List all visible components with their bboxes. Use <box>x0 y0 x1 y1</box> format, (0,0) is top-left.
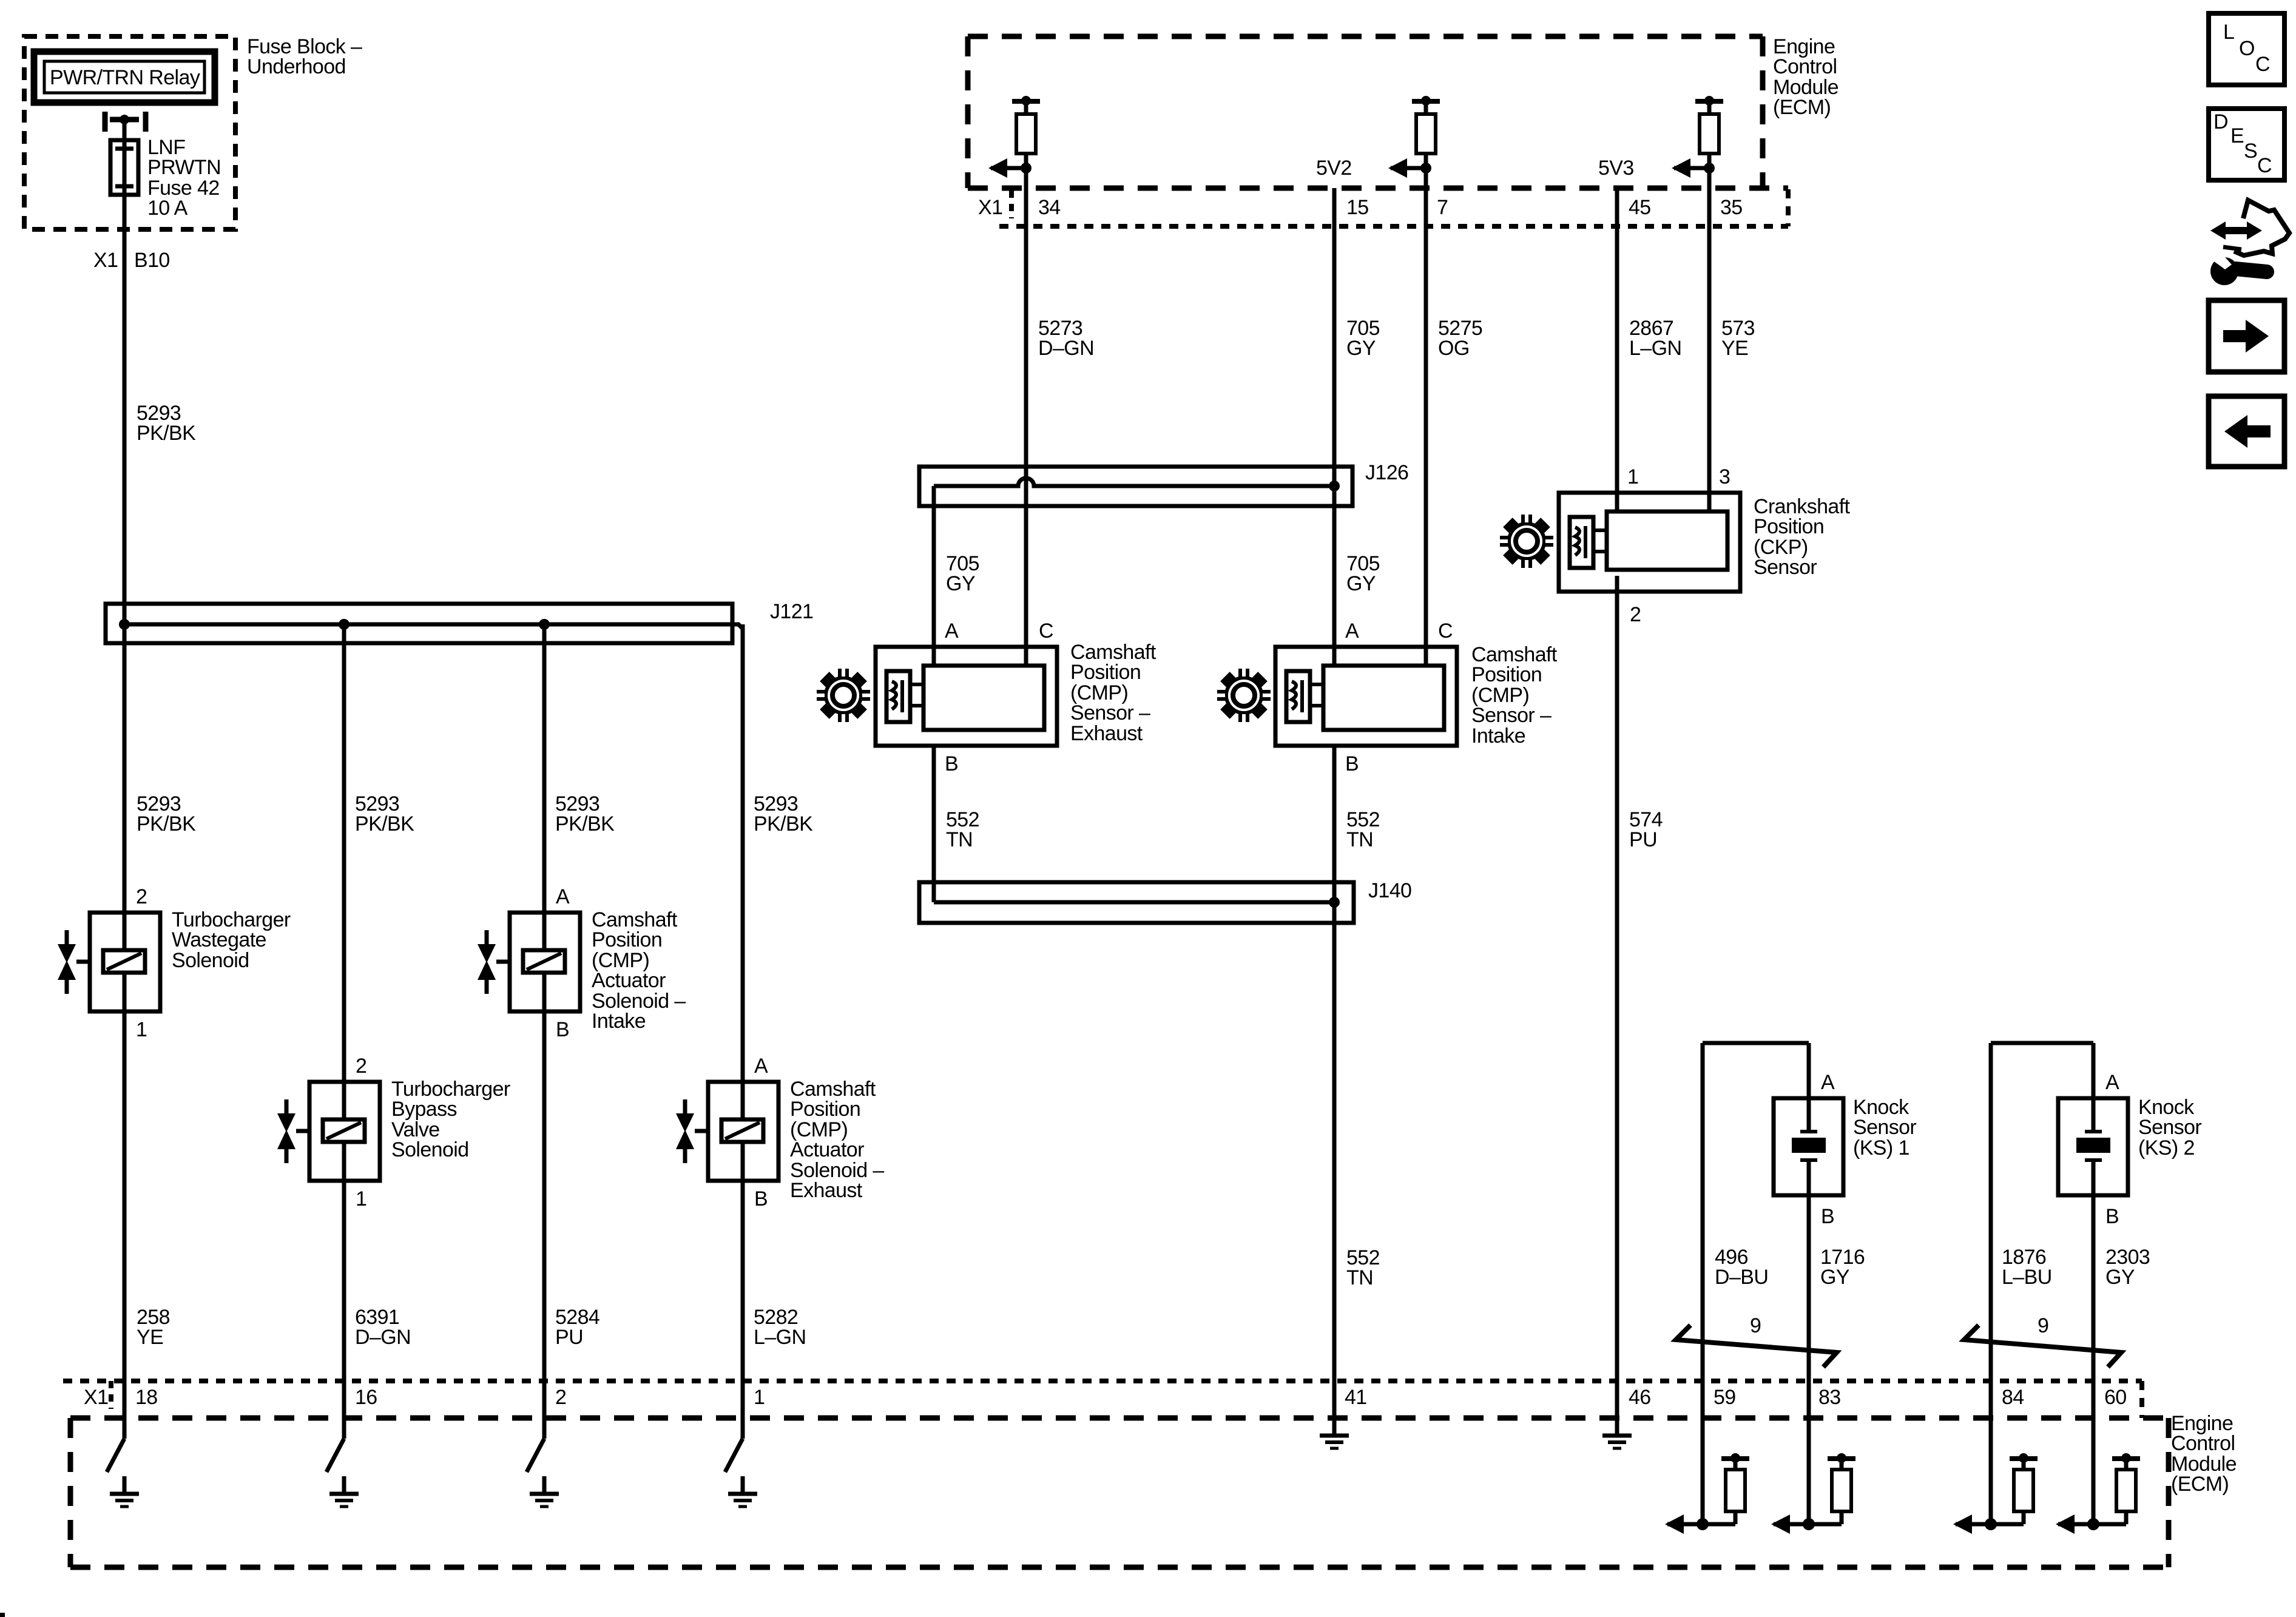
svg-text:GY: GY <box>1346 572 1376 595</box>
svg-text:1: 1 <box>754 1386 765 1409</box>
svg-text:TN: TN <box>1346 828 1373 851</box>
sensor body <box>923 666 1044 730</box>
ground (ECM internal) <box>1332 1418 1337 1436</box>
svg-text:D–BU: D–BU <box>1715 1266 1768 1289</box>
svg-text:1: 1 <box>136 1018 147 1041</box>
ECM top connector dotted strip <box>999 189 1788 226</box>
svg-text:Solenoid: Solenoid <box>391 1138 469 1161</box>
solenoid coil <box>721 1119 763 1142</box>
ground <box>741 1476 745 1494</box>
wire 5293 PK/BK: J121 to bypass solenoid <box>342 624 346 1082</box>
svg-text:Intake: Intake <box>592 1010 646 1033</box>
svg-text:83: 83 <box>1818 1386 1841 1409</box>
icon: check-info arrow with wrench <box>2205 200 2289 285</box>
sensor coil connector <box>886 671 910 722</box>
svg-text:Actuator: Actuator <box>592 969 666 992</box>
svg-text:16: 16 <box>355 1386 377 1409</box>
svg-text:X1: X1 <box>93 249 118 272</box>
ground <box>342 1476 346 1494</box>
svg-text:PK/BK: PK/BK <box>137 422 196 445</box>
ECM top dashed box <box>968 36 1788 188</box>
solenoid coil <box>323 1119 365 1142</box>
svg-text:5V2: 5V2 <box>1316 157 1352 180</box>
svg-text:Position: Position <box>592 928 662 951</box>
svg-text:(ECM): (ECM) <box>1773 96 1831 119</box>
svg-text:YE: YE <box>137 1326 163 1349</box>
solenoid box <box>510 913 580 1011</box>
svg-text:X1: X1 <box>84 1386 108 1409</box>
svg-text:9: 9 <box>1750 1314 1761 1337</box>
svg-text:GY: GY <box>946 572 975 595</box>
svg-text:PK/BK: PK/BK <box>137 812 196 836</box>
svg-text:1: 1 <box>1627 465 1638 488</box>
splice J121 <box>106 604 743 643</box>
svg-text:(ECM): (ECM) <box>2171 1473 2229 1496</box>
wire 5282 L-GN: CMP actuator exhaust to ECM 1 <box>741 1181 745 1439</box>
svg-text:B10: B10 <box>134 249 170 272</box>
svg-text:E: E <box>2230 124 2244 147</box>
svg-text:5V3: 5V3 <box>1598 157 1634 180</box>
svg-text:GY: GY <box>1820 1266 1849 1289</box>
svg-text:PRWTN: PRWTN <box>147 156 221 179</box>
valve symbol <box>65 930 69 945</box>
svg-text:L–BU: L–BU <box>2002 1266 2052 1289</box>
svg-text:Sensor –: Sensor – <box>1471 704 1551 727</box>
wire through solenoid <box>542 913 547 950</box>
sensor body <box>1607 511 1727 570</box>
svg-text:Actuator: Actuator <box>790 1138 864 1161</box>
wire 6391 D-GN: bypass solenoid to ECM 16 <box>342 1181 346 1439</box>
wire: fuse to J121 (5293 PK/BK) <box>123 195 127 624</box>
svg-text:9: 9 <box>2038 1314 2048 1337</box>
fuse F42 LNF PRWTN Fuse 42 10A <box>110 140 138 195</box>
wire 705 GY: ECM 15 to J126 <box>1332 188 1337 486</box>
svg-text:59: 59 <box>1714 1386 1736 1409</box>
svg-text:C: C <box>2257 154 2272 177</box>
wire 5293 PK/BK: J121 to CMP actuator solenoid exhaust <box>741 624 745 1082</box>
svg-text:41: 41 <box>1345 1386 1367 1409</box>
ECM internal pull-up resistor and arrow <box>2112 1456 2140 1461</box>
svg-text:2: 2 <box>1630 603 1641 626</box>
svg-text:PU: PU <box>1629 828 1657 851</box>
svg-text:TN: TN <box>946 828 973 851</box>
svg-text:Position: Position <box>1070 661 1141 684</box>
svg-text:J126: J126 <box>1365 461 1408 484</box>
twisted pair symbol KS1 <box>1676 1325 1837 1367</box>
wire 5273 D-GN: ECM 34 to CMP exhaust C <box>1024 168 1028 666</box>
svg-text:D–GN: D–GN <box>355 1326 411 1349</box>
svg-text:Sensor: Sensor <box>2138 1116 2201 1139</box>
page corner mark <box>0 1613 5 1617</box>
relay PWR/TRN Relay <box>34 52 215 103</box>
svg-text:35: 35 <box>1720 196 1743 219</box>
svg-text:84: 84 <box>2002 1386 2024 1409</box>
wire 5284 PU: CMP actuator intake to ECM 2 <box>542 1011 547 1439</box>
svg-text:X1: X1 <box>978 196 1002 219</box>
wire 5275 OG: ECM 7 to CMP intake C <box>1424 168 1428 666</box>
ECM pull-up resistor at pin 35 <box>1695 99 1723 104</box>
svg-text:O: O <box>2239 37 2255 60</box>
ground <box>123 1476 127 1494</box>
twisted pair symbol KS2 <box>1964 1325 2121 1367</box>
sensor coil connector <box>1570 517 1593 568</box>
svg-text:C: C <box>1438 619 1453 643</box>
icon: DESC box <box>2209 109 2284 180</box>
sensor outer box <box>1275 647 1457 746</box>
solenoid box <box>309 1082 380 1181</box>
wire 5293 PK/BK: J121 to wastegate solenoid <box>123 624 127 913</box>
ECM internal switch to ground <box>107 1418 124 1472</box>
solenoid coil <box>103 950 145 973</box>
svg-text:PWR/TRN Relay: PWR/TRN Relay <box>50 66 200 89</box>
sensor coil connector <box>1286 671 1310 722</box>
wire 574 PU: CKP 2 to ECM 46 <box>1615 576 1619 1436</box>
svg-text:Exhaust: Exhaust <box>790 1179 863 1202</box>
svg-text:B: B <box>945 752 958 775</box>
ECM pull-up resistor at pin 34 <box>1012 99 1040 104</box>
sensor outer box <box>876 647 1057 746</box>
svg-text:B: B <box>2105 1205 2119 1228</box>
wire 2867 L-GN: ECM 45 to CKP 1 <box>1615 188 1619 511</box>
svg-text:GY: GY <box>1346 337 1376 360</box>
svg-text:46: 46 <box>1629 1386 1651 1409</box>
svg-text:B: B <box>1345 752 1359 775</box>
svg-text:GY: GY <box>2105 1266 2135 1289</box>
icon: back arrow box <box>2209 396 2284 467</box>
sensor outer box <box>1559 493 1740 592</box>
svg-text:A: A <box>1821 1071 1835 1094</box>
svg-text:S: S <box>2244 140 2257 163</box>
svg-text:B: B <box>556 1018 569 1041</box>
svg-text:45: 45 <box>1629 196 1651 219</box>
wire 552 TN: CMP intake B to J140 <box>1332 746 1337 902</box>
ECM internal switch to ground <box>527 1418 544 1472</box>
wire 5293 PK/BK: J121 to CMP actuator solenoid intake <box>542 624 547 913</box>
wire 496 D-BU: ECM 59 to KS1 A <box>1703 1043 1809 1524</box>
svg-text:B: B <box>754 1187 768 1210</box>
svg-text:PK/BK: PK/BK <box>355 812 414 836</box>
svg-text:PK/BK: PK/BK <box>754 812 813 836</box>
wire 705 GY: J126 to CMP exhaust A <box>932 486 936 666</box>
svg-text:TN: TN <box>1346 1266 1373 1289</box>
svg-text:Position: Position <box>1754 515 1824 538</box>
gear icon <box>815 667 871 723</box>
svg-text:Bypass: Bypass <box>391 1098 457 1121</box>
wire 552 TN: CMP exhaust B to J140 <box>932 746 936 902</box>
svg-text:Sensor: Sensor <box>1853 1116 1916 1139</box>
wire 1716 GY: KS1 B to ECM 83 <box>1807 1195 1811 1524</box>
svg-text:1: 1 <box>356 1187 366 1210</box>
gear icon <box>1216 667 1272 723</box>
valve symbol <box>285 1099 289 1114</box>
svg-text:Exhaust: Exhaust <box>1070 722 1143 745</box>
svg-text:Control: Control <box>2171 1432 2235 1455</box>
svg-text:YE: YE <box>1721 337 1748 360</box>
wire 552 TN: J140 to ECM 41 <box>1332 902 1337 1436</box>
svg-text:A: A <box>945 619 959 643</box>
svg-text:A: A <box>754 1055 768 1078</box>
ECM internal pull-up resistor and arrow <box>1828 1456 1855 1461</box>
wire 1876 L-BU: ECM 84 to KS2 A <box>1991 1043 2093 1524</box>
svg-text:A: A <box>1345 619 1359 643</box>
svg-text:A: A <box>556 885 570 908</box>
svg-text:J140: J140 <box>1368 879 1411 902</box>
ECM internal switch to ground <box>326 1418 344 1472</box>
svg-text:L: L <box>2223 21 2234 44</box>
svg-text:7: 7 <box>1437 196 1448 219</box>
svg-text:Sensor: Sensor <box>1754 556 1817 579</box>
splice J140 <box>919 882 1354 923</box>
svg-text:Control: Control <box>1773 55 1837 78</box>
ECM internal pull-up resistor and arrow <box>1721 1456 1749 1461</box>
valve symbol <box>683 1099 687 1114</box>
splice J126 <box>919 467 1352 506</box>
valve symbol <box>485 930 489 945</box>
svg-text:(KS) 2: (KS) 2 <box>2138 1136 2195 1160</box>
ECM bottom connector dotted strip <box>63 1381 2142 1418</box>
svg-text:15: 15 <box>1346 196 1369 219</box>
ECM internal switch to ground <box>725 1418 743 1472</box>
svg-text:Sensor –: Sensor – <box>1070 701 1150 724</box>
svg-text:2: 2 <box>356 1055 366 1078</box>
wire 2303 GY: KS2 B to ECM 60 <box>2092 1195 2096 1524</box>
ECM bottom dashed box <box>70 1418 2169 1567</box>
sensor body <box>1323 666 1444 730</box>
wire through solenoid <box>741 1082 745 1119</box>
wire 258 YE: wastegate solenoid to ECM 18 <box>123 1011 127 1439</box>
ground <box>542 1476 547 1494</box>
knock sensor KS1 <box>1774 1098 1843 1195</box>
relay contact bracket <box>105 112 146 132</box>
solenoid coil <box>523 950 565 973</box>
svg-text:18: 18 <box>135 1386 158 1409</box>
ECM pull-up resistor at pin 7 <box>1412 99 1440 104</box>
svg-text:L–GN: L–GN <box>754 1326 806 1349</box>
svg-text:A: A <box>2105 1071 2119 1094</box>
svg-text:B: B <box>1821 1205 1834 1228</box>
ECM internal pull-up resistor and arrow <box>2010 1456 2038 1461</box>
svg-text:D: D <box>2213 110 2228 133</box>
wire: relay to fuse <box>123 120 127 140</box>
svg-text:D–GN: D–GN <box>1038 337 1094 360</box>
svg-text:2: 2 <box>555 1386 566 1409</box>
svg-text:3: 3 <box>1719 465 1730 488</box>
svg-text:Position: Position <box>1471 663 1542 686</box>
svg-text:OG: OG <box>1438 337 1470 360</box>
svg-text:34: 34 <box>1038 196 1061 219</box>
wire through solenoid <box>123 913 127 950</box>
svg-text:60: 60 <box>2104 1386 2127 1409</box>
svg-text:PK/BK: PK/BK <box>555 812 615 836</box>
knock sensor KS2 <box>2058 1098 2128 1195</box>
svg-text:Underhood: Underhood <box>247 55 346 78</box>
svg-text:J121: J121 <box>770 600 813 623</box>
wire 705 GY: J126 to CMP intake A <box>1332 486 1337 666</box>
svg-text:C: C <box>1039 619 1053 643</box>
wire 573 YE: ECM 35 to CKP 3 <box>1707 168 1712 511</box>
wire through solenoid <box>342 1082 346 1119</box>
fuse block underhood dashed box <box>24 36 235 229</box>
svg-text:Wastegate: Wastegate <box>172 928 266 951</box>
svg-text:10 A: 10 A <box>147 197 188 220</box>
svg-text:Intake: Intake <box>1471 724 1525 748</box>
icon: LOC box <box>2209 13 2284 85</box>
solenoid box <box>708 1082 778 1181</box>
ground (ECM internal) <box>1615 1418 1619 1436</box>
svg-text:Position: Position <box>790 1098 860 1121</box>
gear icon <box>1499 513 1555 569</box>
solenoid box <box>90 913 160 1011</box>
svg-text:(KS) 1: (KS) 1 <box>1853 1136 1909 1160</box>
svg-text:L–GN: L–GN <box>1629 337 1681 360</box>
svg-text:Solenoid: Solenoid <box>172 949 249 972</box>
icon: forward arrow box <box>2209 300 2284 372</box>
svg-text:PU: PU <box>555 1326 583 1349</box>
svg-text:2: 2 <box>136 885 147 908</box>
svg-text:C: C <box>2255 53 2270 76</box>
